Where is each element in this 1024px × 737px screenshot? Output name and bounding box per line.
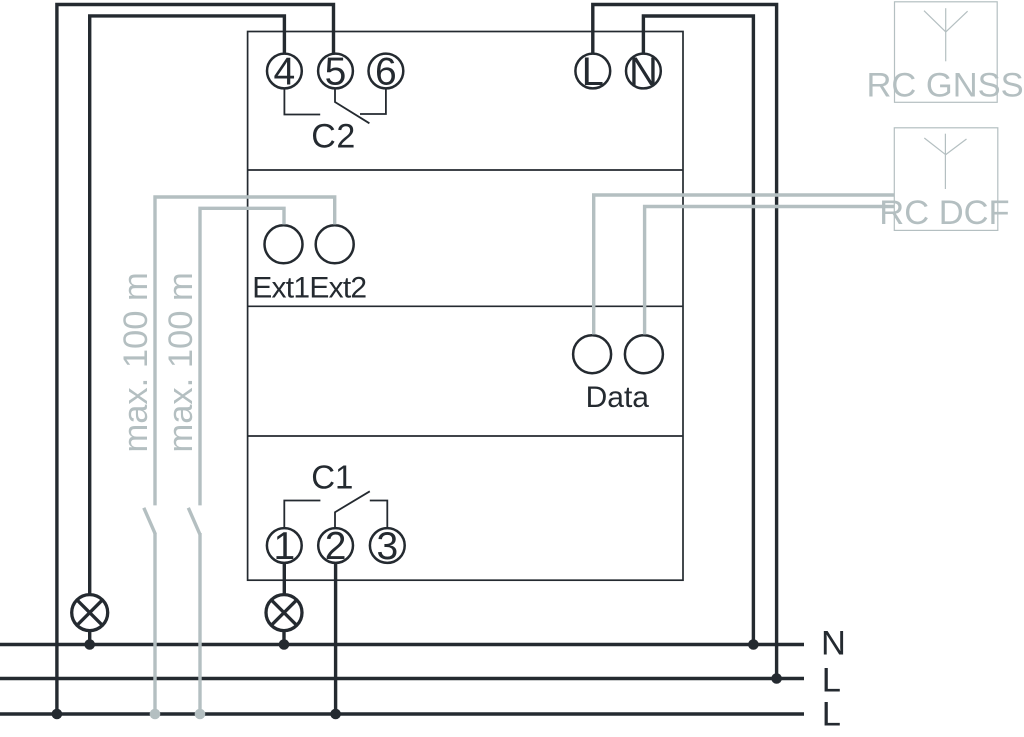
terminal N — [626, 50, 661, 94]
svg-text:5: 5 — [325, 50, 347, 93]
contact C2 pin 6 lead — [360, 88, 386, 114]
lamp E2 — [266, 595, 302, 631]
junction L/rail L — [771, 673, 782, 684]
svg-text:3: 3 — [376, 525, 398, 568]
junction E1/N — [84, 639, 95, 650]
svg-text:6: 6 — [375, 50, 397, 93]
junction N/rail N — [748, 639, 759, 650]
terminal 6 — [369, 50, 404, 93]
antenna symbol RC GNSS — [924, 8, 968, 61]
junction wire/rail L bottom — [52, 709, 63, 720]
svg-text:N: N — [821, 625, 846, 663]
svg-text:4: 4 — [274, 50, 296, 93]
contact C1 pin 3 lead — [370, 501, 388, 529]
svg-text:RC DCF: RC DCF — [879, 194, 1009, 232]
wire terminal 1 to lamp E2 — [283, 563, 286, 594]
wire terminal L to rail L — [593, 5, 777, 679]
rail N — [0, 643, 804, 646]
terminal 2 — [318, 525, 353, 568]
wire terminal 2 to rail L bottom — [334, 563, 337, 714]
wire Data1 to RC DCF — [594, 195, 895, 335]
wire Data2 to RC DCF — [645, 207, 895, 335]
wire terminal 4 to lamp E1 — [90, 16, 285, 594]
svg-text:N: N — [629, 50, 658, 94]
contact C1 common blade (pin 2) — [335, 491, 370, 528]
junction pin2/rail L — [330, 709, 341, 720]
svg-text:max. 100 m: max. 100 m — [162, 272, 200, 452]
terminal 3 — [370, 525, 405, 568]
switch S2 blade — [144, 508, 156, 534]
terminal Ext1 — [265, 225, 303, 263]
junction E2/N — [279, 639, 290, 650]
wire S2 to rail L — [153, 533, 156, 714]
wire L supply to terminal 5 — [57, 5, 334, 715]
antenna box RC GNSS — [895, 2, 998, 103]
svg-text:Ext1Ext2: Ext1Ext2 — [252, 272, 366, 305]
terminal Data B — [625, 335, 663, 373]
svg-text:L: L — [582, 50, 604, 94]
wire lamp E2 to rail N — [282, 632, 285, 646]
junction S1/L — [195, 709, 206, 720]
lamp E1 — [72, 595, 108, 631]
antenna symbol RC DCF — [924, 134, 966, 189]
terminal Ext2 — [316, 225, 354, 263]
junction S2/L — [150, 709, 161, 720]
antenna box RC DCF — [894, 128, 998, 231]
svg-text:C2: C2 — [311, 118, 355, 156]
svg-text:Data: Data — [586, 381, 650, 414]
svg-text:L: L — [822, 696, 841, 734]
svg-text:RC GNSS: RC GNSS — [867, 66, 1024, 104]
section divider Ext/Data — [248, 305, 683, 307]
terminal Data A — [573, 335, 611, 373]
svg-text:2: 2 — [325, 525, 347, 568]
rail L (middle) — [0, 677, 804, 680]
svg-text:C1: C1 — [311, 459, 353, 496]
terminal 4 — [267, 50, 302, 93]
svg-text:1: 1 — [273, 525, 295, 568]
contact C2 pin 4 lead — [284, 88, 320, 114]
section divider Data/C1 — [248, 435, 683, 437]
terminal 5 — [318, 50, 353, 93]
wire lamp E1 to rail N — [88, 632, 91, 646]
wire S1 to rail L — [198, 533, 201, 714]
svg-text:max. 100 m: max. 100 m — [117, 272, 155, 452]
wire terminal N to rail N — [643, 16, 753, 645]
wire Ext1 to switch S1 (grey) — [200, 208, 284, 505]
device box — [248, 32, 683, 581]
rail L (bottom) — [0, 712, 804, 715]
terminal 1 — [267, 525, 302, 568]
terminal L — [575, 50, 610, 94]
contact C2 common blade (pin 5) — [335, 88, 369, 123]
contact C1 pin 1 lead — [284, 501, 320, 529]
switch S1 blade — [188, 508, 200, 534]
svg-text:L: L — [822, 661, 841, 699]
section divider C2/Ext — [248, 169, 683, 171]
wire Ext2 to switch S2 (grey) — [155, 197, 335, 505]
